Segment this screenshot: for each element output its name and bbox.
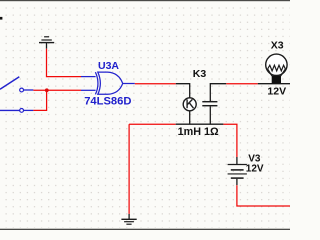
wire switch to gate input B (33, 89, 81, 91)
relay coil K3 (176, 84, 190, 125)
lamp X3 (258, 54, 290, 84)
battery V3 (228, 157, 247, 185)
wire battery to bottom right edge (237, 185, 290, 206)
svg-text:1mH 1Ω: 1mH 1Ω (178, 126, 219, 138)
svg-text:U3A: U3A (98, 60, 119, 72)
wire rail to bottom ground (128, 124, 130, 214)
svg-text:12V: 12V (267, 86, 286, 98)
ground (bottom) (121, 214, 136, 224)
clipped component stub at left edge (0, 17, 2, 20)
svg-text:12V: 12V (246, 164, 264, 175)
wire junction to lower throw (33, 90, 46, 110)
switch pin stub 1 (24, 89, 34, 91)
svg-text:K3: K3 (193, 68, 207, 80)
XOR gate U3A input/output pins (81, 77, 135, 91)
switch lead left (0, 109, 20, 111)
ground (top, flipped) (39, 37, 54, 49)
wire ground to gate input A (47, 49, 82, 77)
wire bottom rail left (ground riser to coil) (129, 123, 176, 125)
capacitor C1 (202, 84, 226, 125)
wire capacitor to lamp (226, 83, 257, 85)
switch pin stub 2 (24, 109, 34, 111)
XOR gate U3A body (95, 72, 98, 94)
wire bottom rail black segment under coil and capacitor (176, 123, 224, 125)
svg-text:74LS86D: 74LS86D (84, 96, 131, 108)
svg-text:X3: X3 (271, 40, 284, 52)
switch throw terminal 2 (20, 109, 24, 113)
wire gate output to relay coil (135, 83, 176, 85)
switch arm (0, 77, 19, 90)
junction node (45, 88, 49, 92)
wire bottom rail right to battery (223, 124, 237, 157)
switch throw terminal 1 (20, 88, 24, 92)
